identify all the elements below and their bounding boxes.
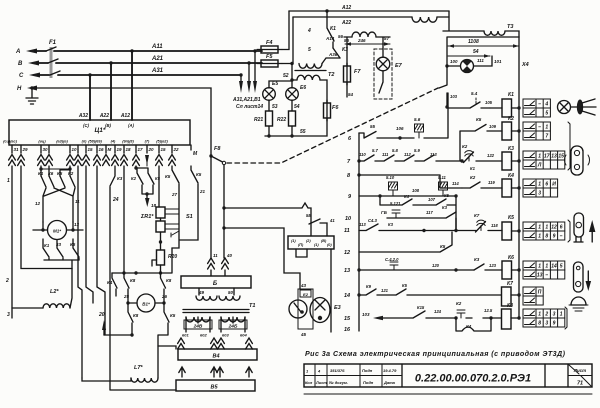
svg-text:22: 22 xyxy=(173,147,180,152)
svg-text:110: 110 xyxy=(359,152,366,157)
svg-text:К1: К1 xyxy=(44,243,50,248)
svg-text:К4: К4 xyxy=(508,173,514,179)
dashed linkage F8 to K13 xyxy=(227,88,438,163)
svg-text:52: 52 xyxy=(283,73,289,79)
wire 15 down xyxy=(86,166,93,303)
relay coil K8 xyxy=(502,303,521,329)
svg-text:М: М xyxy=(108,147,112,152)
svg-text:(сц)(ас): (сц)(ас) xyxy=(3,140,18,144)
svg-text:2: 2 xyxy=(544,312,548,318)
svg-text:(4): (4) xyxy=(111,140,116,144)
svg-text:10: 10 xyxy=(72,147,78,152)
contact K3 row k6 xyxy=(474,257,502,270)
svg-text:5: 5 xyxy=(560,264,563,270)
relay coil K2 xyxy=(502,116,521,140)
svg-text:3: 3 xyxy=(7,312,10,318)
svg-text:54: 54 xyxy=(473,49,479,55)
svg-text:55: 55 xyxy=(370,124,376,129)
svg-text:К1: К1 xyxy=(470,166,476,171)
svg-text:108: 108 xyxy=(412,188,420,193)
title block xyxy=(304,364,592,394)
svg-text:К4: К4 xyxy=(466,324,472,329)
svg-text:К6: К6 xyxy=(508,255,514,261)
node A phase input xyxy=(15,49,46,56)
svg-text:12.5: 12.5 xyxy=(484,308,493,313)
resistor R20 xyxy=(152,250,177,273)
contact K3 xyxy=(308,47,348,58)
contact table K2 xyxy=(523,122,550,140)
svg-text:К5: К5 xyxy=(476,117,482,122)
svg-text:А36: А36 xyxy=(328,52,338,57)
svg-text:К1: К1 xyxy=(508,92,514,98)
contact K5 lower xyxy=(158,303,176,346)
relay coil K4 xyxy=(502,173,521,197)
resistor block sigma R1 xyxy=(140,166,179,250)
svg-text:111: 111 xyxy=(382,152,389,157)
svg-text:F8: F8 xyxy=(214,146,221,152)
svg-text:(вц): (вц) xyxy=(38,140,46,144)
svg-text:602: 602 xyxy=(200,333,207,338)
contact K7 pedal row k5 xyxy=(474,213,502,232)
svg-text:К3: К3 xyxy=(442,205,448,210)
svg-text:(а3)(в): (а3)(в) xyxy=(56,140,68,144)
svg-text:(В): (В) xyxy=(105,123,111,128)
svg-text:Ц1*: Ц1* xyxy=(95,127,106,134)
svg-text:0.22.00.00.070.2.0.РЭ1: 0.22.00.00.070.2.0.РЭ1 xyxy=(415,373,531,385)
terminal stub wires with numbers xyxy=(12,145,179,153)
svg-text:К5: К5 xyxy=(440,244,446,249)
svg-text:–: – xyxy=(560,234,563,240)
svg-text:1: 1 xyxy=(538,154,541,160)
svg-text:1108: 1108 xyxy=(468,39,479,45)
svg-text:F4: F4 xyxy=(266,40,272,46)
lamp E7 dashed enclosure xyxy=(374,49,392,99)
svg-text:1: 1 xyxy=(545,225,548,231)
bus X4 xyxy=(519,37,529,319)
svg-text:15: 15 xyxy=(558,154,564,160)
svg-text:119: 119 xyxy=(488,180,495,185)
svg-text:В: В xyxy=(18,61,23,67)
wire F5 to A22 riser xyxy=(282,17,294,65)
rectifier B4 box xyxy=(178,349,257,360)
svg-text:А22: А22 xyxy=(341,20,351,26)
svg-text:1: 1 xyxy=(538,182,541,188)
svg-text:К2: К2 xyxy=(131,176,137,181)
motor M1 xyxy=(33,221,83,240)
contact K2 motor xyxy=(68,171,75,187)
svg-text:К2: К2 xyxy=(508,116,514,122)
wire A32 drop to box terminal C xyxy=(78,75,90,120)
row 11 to relay K5 xyxy=(344,218,476,234)
svg-text:R20: R20 xyxy=(168,254,177,260)
svg-text:А31: А31 xyxy=(151,68,164,74)
svg-text:К5: К5 xyxy=(402,283,408,288)
fuse F7 xyxy=(344,37,362,97)
contact table K8 xyxy=(523,309,565,327)
svg-text:(1): (1) xyxy=(314,243,319,247)
svg-text:15: 15 xyxy=(161,147,167,152)
wire A22 top xyxy=(293,17,412,26)
ladder left rail xyxy=(358,133,360,331)
contact K5 upper b xyxy=(191,166,206,194)
svg-text:5.6: 5.6 xyxy=(414,117,421,122)
terminal block B1P xyxy=(288,236,334,249)
svg-text:1: 1 xyxy=(7,178,10,184)
svg-text:(П): (П) xyxy=(298,243,304,247)
row 8 xyxy=(347,173,462,188)
lamp with plug row K1 xyxy=(558,99,597,115)
T1 terminal labels xyxy=(182,333,247,338)
svg-text:Дата: Дата xyxy=(383,380,396,385)
contact K2 pedal row k3 xyxy=(462,144,502,171)
svg-text:Лист: Лист xyxy=(315,380,327,385)
inductor 246 xyxy=(344,32,390,37)
svg-text:Е6: Е6 xyxy=(300,85,306,91)
svg-text:3: 3 xyxy=(545,321,548,327)
contact K4 bypass row16 xyxy=(344,318,491,333)
dimension 246 xyxy=(344,36,390,46)
svg-text:1: 1 xyxy=(538,312,541,318)
svg-text:55: 55 xyxy=(300,129,306,135)
relay coil K5 xyxy=(502,215,521,240)
svg-text:ГБ: ГБ xyxy=(381,210,388,215)
svg-text:12: 12 xyxy=(344,250,350,256)
wire sigma bottom bus xyxy=(112,248,172,275)
svg-text:57: 57 xyxy=(384,36,390,41)
svg-text:351/376: 351/376 xyxy=(330,368,345,373)
svg-text:5В: 5В xyxy=(306,213,311,218)
contact K5 row k2 xyxy=(460,117,502,161)
svg-text:Подп: Подп xyxy=(362,368,373,373)
svg-text:5.8: 5.8 xyxy=(392,148,398,153)
contact table K6 xyxy=(523,261,565,279)
lamp E5 xyxy=(263,81,279,100)
bracket K5 table xyxy=(568,220,570,242)
svg-text:К5: К5 xyxy=(444,193,450,198)
connector capsule row K5 with arrow xyxy=(574,213,595,242)
wire motor cross links xyxy=(35,188,80,222)
svg-text:Н: Н xyxy=(17,86,22,92)
svg-text:5: 5 xyxy=(308,47,311,53)
svg-text:20: 20 xyxy=(98,312,105,318)
wire lamp return to F6 xyxy=(265,118,327,138)
svg-text:101: 101 xyxy=(494,59,502,64)
row 13 to relay K6 xyxy=(344,257,474,274)
terminal box U1 xyxy=(9,120,190,145)
svg-text:16: 16 xyxy=(344,327,351,333)
wire A31 xyxy=(58,68,243,77)
svg-text:13: 13 xyxy=(551,154,557,160)
svg-text:603: 603 xyxy=(222,333,229,338)
bracket K8 table xyxy=(565,307,567,329)
wire A22 drop to box terminal B xyxy=(99,63,111,120)
svg-text:112: 112 xyxy=(404,152,411,157)
svg-text:К9: К9 xyxy=(366,284,372,289)
svg-text:А12: А12 xyxy=(120,113,130,119)
svg-text:13: 13 xyxy=(537,273,543,279)
terminal M label right xyxy=(191,145,198,157)
svg-text:113: 113 xyxy=(359,222,366,227)
svg-text:4: 4 xyxy=(544,102,548,108)
svg-text:105: 105 xyxy=(485,100,493,105)
svg-text:601: 601 xyxy=(182,333,189,338)
relay coil K3 xyxy=(502,146,521,170)
box bottom terminal labels xyxy=(3,140,168,144)
pushbutton K2 row15 xyxy=(456,301,493,318)
svg-text:(5)(в2): (5)(в2) xyxy=(156,140,168,144)
svg-text:5.9: 5.9 xyxy=(414,148,420,153)
signal lamp 100/101 xyxy=(445,56,502,73)
svg-text:19: 19 xyxy=(117,147,123,152)
connector arrows into B5 xyxy=(179,367,252,377)
contact K1 xyxy=(307,11,344,48)
svg-text:2: 2 xyxy=(5,278,9,284)
rectifier B box xyxy=(181,276,251,288)
svg-text:К1: К1 xyxy=(330,26,336,32)
contact K4 xyxy=(107,273,117,296)
svg-text:Т1: Т1 xyxy=(249,303,255,309)
svg-text:103: 103 xyxy=(362,312,370,317)
svg-text:54: 54 xyxy=(348,92,354,97)
svg-text:(п): (п) xyxy=(82,140,88,144)
svg-text:Х4: Х4 xyxy=(521,62,529,68)
switch S1 xyxy=(172,184,198,248)
contact K6 lower xyxy=(70,239,79,260)
svg-text:К2: К2 xyxy=(456,301,462,306)
svg-text:109: 109 xyxy=(489,124,497,129)
svg-text:(7): (7) xyxy=(145,140,150,144)
svg-text:27: 27 xyxy=(171,192,178,197)
relay coil K7 xyxy=(502,281,521,306)
svg-text:Л: Л xyxy=(537,163,542,169)
svg-text:12: 12 xyxy=(35,201,41,206)
contact K3 wire M xyxy=(110,166,176,390)
svg-text:17: 17 xyxy=(138,147,144,152)
wire A12 drop to box terminal A xyxy=(120,51,132,120)
svg-text:Подп: Подп xyxy=(363,380,374,385)
svg-text:К5: К5 xyxy=(508,215,514,221)
svg-text:А31,А21,В1: А31,А21,В1 xyxy=(232,97,261,103)
svg-text:К5: К5 xyxy=(155,176,161,181)
svg-text:11: 11 xyxy=(344,228,350,234)
svg-text:А22: А22 xyxy=(99,113,109,119)
transformer T2 xyxy=(292,58,340,103)
svg-text:L7*: L7* xyxy=(134,365,143,371)
svg-text:К7: К7 xyxy=(507,281,513,287)
svg-text:120: 120 xyxy=(432,263,440,268)
fuse F5 xyxy=(257,54,282,67)
contact K13 xyxy=(439,66,458,109)
ground xyxy=(26,88,38,104)
fuse F4 xyxy=(257,40,282,53)
wire to indicator box a xyxy=(224,203,311,236)
node C phase input xyxy=(19,73,50,80)
svg-text:К8: К8 xyxy=(507,303,513,309)
wire 17 down xyxy=(135,272,137,274)
svg-text:(58)(69): (58)(69) xyxy=(88,140,102,144)
svg-text:К2: К2 xyxy=(462,144,468,149)
svg-text:1: 1 xyxy=(545,264,548,270)
lamp E3 xyxy=(310,298,341,323)
svg-text:F7: F7 xyxy=(354,69,361,75)
svg-text:Т2: Т2 xyxy=(328,72,334,78)
relay coil K6 xyxy=(502,255,521,279)
svg-text:114: 114 xyxy=(452,181,459,186)
svg-text:Е5: Е5 xyxy=(272,81,278,87)
svg-text:(0): (0) xyxy=(327,243,332,247)
svg-text:ΣR1*: ΣR1* xyxy=(140,214,154,220)
svg-text:И: И xyxy=(552,182,556,188)
contact K8 left xyxy=(124,273,136,303)
svg-text:19.4.79: 19.4.79 xyxy=(383,368,397,373)
svg-text:10: 10 xyxy=(345,216,351,222)
svg-text:Е2: Е2 xyxy=(303,292,309,297)
svg-text:К3: К3 xyxy=(474,257,480,262)
svg-text:14: 14 xyxy=(344,293,350,299)
svg-text:24: 24 xyxy=(112,197,119,203)
svg-text:3: 3 xyxy=(553,312,556,318)
contact K1 lower xyxy=(43,239,50,260)
bracket K1K2 tables xyxy=(568,122,570,170)
node N neutral input xyxy=(17,86,211,259)
resistor R21 xyxy=(254,100,278,126)
svg-text:К3: К3 xyxy=(117,176,123,181)
svg-text:Рис 3а Схема электрическа: Рис 3а Схема электрическая принципиальна… xyxy=(305,350,566,358)
wire B4 right link xyxy=(0,0,1,1)
contacts K2 K5 parallel pair xyxy=(131,166,161,208)
wire riser 11 xyxy=(209,154,212,157)
svg-text:123: 123 xyxy=(489,263,497,268)
svg-text:50: 50 xyxy=(228,290,234,295)
row 9 lower branch xyxy=(378,193,457,231)
svg-text:100: 100 xyxy=(450,59,458,64)
svg-text:6: 6 xyxy=(545,182,548,188)
svg-text:R21: R21 xyxy=(254,117,263,123)
contact 58 xyxy=(306,213,335,236)
row 14 xyxy=(344,283,501,299)
transformer T3 xyxy=(443,11,519,37)
svg-text:F1: F1 xyxy=(49,40,57,46)
wire motor bottom merge xyxy=(44,259,79,261)
svg-text:56: 56 xyxy=(338,34,344,39)
svg-text:11: 11 xyxy=(213,253,218,258)
svg-text:15: 15 xyxy=(344,316,351,322)
transformer T1 core xyxy=(183,303,255,313)
wire 19 down xyxy=(123,166,125,273)
svg-text:24В: 24В xyxy=(193,324,203,330)
wire to indicator box b xyxy=(224,228,300,289)
svg-text:25: 25 xyxy=(123,294,130,299)
contact table K7 xyxy=(523,287,543,305)
svg-text:К5: К5 xyxy=(170,313,176,318)
svg-text:40: 40 xyxy=(226,253,233,258)
wire A12 top xyxy=(289,5,449,13)
svg-text:20: 20 xyxy=(148,147,155,152)
svg-text:А14: А14 xyxy=(325,36,335,41)
row 15 xyxy=(344,305,501,322)
wire A21 xyxy=(56,56,262,65)
svg-text:29: 29 xyxy=(22,147,29,152)
svg-text:Т3: Т3 xyxy=(507,24,513,30)
svg-text:К6: К6 xyxy=(70,242,76,247)
connector capsule row K6 xyxy=(574,262,584,292)
svg-text:1: 1 xyxy=(538,234,541,240)
contact table K5 xyxy=(523,222,565,240)
svg-text:К3: К3 xyxy=(388,222,394,227)
svg-text:Кол: Кол xyxy=(305,380,313,385)
T1 primary xyxy=(196,288,240,300)
bell indicator xyxy=(569,271,591,311)
svg-text:1: 1 xyxy=(560,312,563,318)
relay coil K1 xyxy=(490,92,521,117)
title caption xyxy=(305,350,566,358)
svg-text:К5: К5 xyxy=(165,174,171,179)
svg-text:К6: К6 xyxy=(48,171,54,176)
wire A11 xyxy=(54,44,262,53)
switch F8 xyxy=(211,146,226,258)
svg-text:24Б: 24Б xyxy=(228,324,238,330)
svg-text:13: 13 xyxy=(74,222,80,227)
svg-text:А11: А11 xyxy=(151,44,163,50)
svg-text:К1: К1 xyxy=(38,171,44,176)
svg-text:18: 18 xyxy=(126,147,132,152)
wire 30 pair to contacts xyxy=(39,166,82,378)
svg-text:(1): (1) xyxy=(291,239,296,243)
contact table K4 xyxy=(523,179,558,197)
svg-text:31: 31 xyxy=(14,147,20,152)
row 9 xyxy=(348,175,455,200)
svg-text:5.10: 5.10 xyxy=(386,175,395,180)
svg-text:43: 43 xyxy=(300,283,307,288)
svg-text:106: 106 xyxy=(396,126,404,131)
svg-text:12: 12 xyxy=(551,225,557,231)
svg-text:К3: К3 xyxy=(508,146,514,152)
svg-text:К2: К2 xyxy=(68,171,74,176)
svg-text:К8: К8 xyxy=(166,278,172,283)
svg-text:К15: К15 xyxy=(417,305,425,310)
svg-text:F5: F5 xyxy=(266,54,273,60)
fuse F6 xyxy=(324,100,340,121)
svg-text:103: 103 xyxy=(450,94,458,99)
row 12 xyxy=(344,232,452,256)
dimension 54 xyxy=(448,49,490,58)
svg-text:В5: В5 xyxy=(210,385,218,391)
svg-text:С4.3: С4.3 xyxy=(368,218,378,223)
svg-text:–: – xyxy=(545,273,548,279)
inductor L7 xyxy=(82,346,176,382)
contact S4 dashed k1row xyxy=(448,91,493,108)
svg-text:122: 122 xyxy=(487,153,495,158)
wire T2 secondary to lamps xyxy=(269,73,294,88)
svg-text:К8: К8 xyxy=(130,278,136,283)
svg-text:1: 1 xyxy=(538,264,541,270)
wire 16 down xyxy=(97,166,105,335)
svg-text:–: – xyxy=(538,102,541,108)
svg-text:118: 118 xyxy=(491,223,498,228)
svg-text:8: 8 xyxy=(545,234,548,240)
contact K1 motor xyxy=(38,171,46,187)
svg-text:(9п)(8): (9п)(8) xyxy=(122,140,134,144)
row 10 xyxy=(345,201,456,231)
row 7 to relay K3 xyxy=(347,148,464,165)
svg-text:5.11: 5.11 xyxy=(438,175,447,180)
svg-text:5.4: 5.4 xyxy=(471,91,478,96)
wire bracket under block xyxy=(296,249,331,332)
svg-text:121: 121 xyxy=(381,288,389,293)
svg-text:К7: К7 xyxy=(474,213,480,218)
contact K5 upper xyxy=(165,166,179,197)
svg-text:В1*: В1* xyxy=(142,302,150,307)
